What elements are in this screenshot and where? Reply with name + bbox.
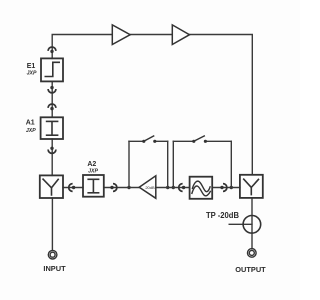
attenuator A1 [41,117,63,139]
wire Y1 to A2 [63,187,83,189]
svg-text:JXP: JXP [88,169,98,175]
wire A1 to E1 [51,81,53,117]
connector E1 input [48,47,56,53]
svg-text:JXP: JXP [27,71,37,77]
connector INPUT port [48,250,57,259]
wire amp2 to right corner [190,35,253,175]
power combiner Y2 [240,175,263,198]
wire Y1 top to A1 [51,139,53,175]
svg-text:OUTPUT: OUTPUT [235,265,266,274]
svg-text:A2: A2 [87,161,96,168]
wire bypass loop 1 left [128,141,130,187]
wire bypass loop 2 top right [205,140,231,142]
wire amp3 to filter [156,187,190,189]
wire bypass loop 2 top left [173,140,194,142]
svg-text:A1: A1 [26,120,35,127]
junction J3 [172,186,175,189]
connector E1 output [48,86,56,93]
connector A1 output [48,147,56,154]
svg-text:E1: E1 [27,63,36,70]
power splitter Y1 [40,175,63,198]
connector A2 output [110,184,117,192]
wire TP tap [229,223,252,225]
wire bypass loop 2 right [230,141,232,187]
wire E1 top riser [52,35,112,59]
connector Y1 output [69,184,76,192]
wire bypass loop 1 top right [155,140,168,142]
svg-text:TP -20dB: TP -20dB [206,211,239,220]
connector filter input [179,184,186,192]
svg-text:INPUT: INPUT [43,264,66,273]
wire bypass loop 1 top left [129,140,144,142]
wire Y2 bottom to output [251,198,253,249]
wire input riser [51,198,53,250]
wire bypass loop 2 left [172,141,174,187]
amplifier AMP2 [172,25,189,45]
amplifier AMP1 [112,25,130,45]
connector OUTPUT port [248,249,257,258]
wire A2 to amp3 [104,187,139,189]
junction J1 [127,186,130,189]
connector A1 input [48,104,56,110]
bandpass filter FL1 [190,177,213,199]
wire amp1 to amp2 [130,34,172,36]
svg-text:JXP: JXP [26,128,36,134]
test point TP -20dB coupler [243,216,261,234]
connector filter output [220,184,227,192]
junction J4 [230,186,233,189]
wire bypass loop 1 right [167,141,169,187]
svg-text:20dB: 20dB [145,185,155,190]
switch S1 [142,136,156,143]
wire filter to Y2 [212,187,240,189]
limiter E1 [41,58,63,81]
attenuator A2 [83,175,104,197]
switch S2 [192,136,207,143]
amplifier AMP3 20dB [139,176,156,199]
junction J2 [166,186,169,189]
